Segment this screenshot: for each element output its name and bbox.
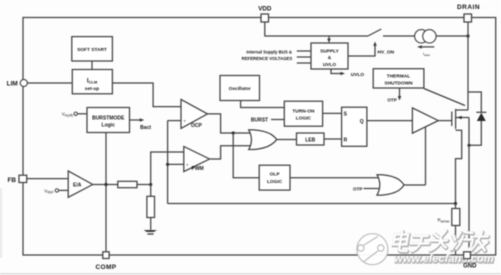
wire OR2 output bbox=[404, 184, 426, 186]
wire VDD rail bbox=[265, 22, 368, 36]
watermark chinese characters bbox=[392, 231, 490, 252]
wire ICLM to OCP inverting input bbox=[112, 83, 181, 107]
or-gate OR2 bbox=[377, 175, 404, 195]
wire turn-on to S bbox=[323, 112, 342, 114]
svg-text:ICLM: ICLM bbox=[87, 79, 98, 85]
resistor Rsense bbox=[455, 204, 457, 209]
svg-text:TURN-ON: TURN-ON bbox=[292, 109, 315, 115]
node OCP branch bbox=[232, 131, 235, 134]
burstmode logic box bbox=[87, 108, 130, 133]
oscillator box bbox=[220, 76, 260, 101]
wire OLP to OR2 bbox=[290, 177, 380, 179]
svg-text:www.elecfans.com: www.elecfans.com bbox=[394, 253, 494, 265]
driver buffer bbox=[412, 108, 438, 133]
wire burstmode to COMP bbox=[105, 133, 107, 253]
current source startup bbox=[415, 30, 428, 43]
turn-on logic box bbox=[284, 101, 322, 126]
node drain junction bbox=[466, 34, 469, 37]
wire body to GND bbox=[468, 118, 470, 253]
svg-text:Bact: Bact bbox=[140, 125, 151, 131]
svg-text:OTP: OTP bbox=[353, 186, 362, 191]
soft start box bbox=[72, 37, 113, 61]
svg-text:VDD: VDD bbox=[258, 6, 272, 13]
svg-text:PWM: PWM bbox=[192, 166, 204, 172]
svg-text:HV_ON: HV_ON bbox=[378, 50, 395, 56]
svg-text:REFERENCE VOLTAGES: REFERENCE VOLTAGES bbox=[242, 56, 293, 61]
wire HV_ON control bbox=[348, 45, 375, 57]
wire rail to drain bbox=[436, 35, 468, 37]
LEB box bbox=[297, 133, 325, 145]
wire OR2 up to driver bbox=[425, 127, 427, 185]
wire sense line horizontal bbox=[168, 203, 456, 205]
wire UVLO out bbox=[331, 69, 342, 74]
svg-text:&: & bbox=[328, 55, 332, 61]
wire PWM out to OR1 bbox=[210, 146, 252, 159]
flip-flop SR latch bbox=[342, 107, 367, 146]
svg-text:+: + bbox=[186, 162, 189, 167]
wire divider to PWM inverting input bbox=[151, 152, 184, 185]
wire thermal diagonal to MOSFET bbox=[424, 89, 465, 106]
svg-text:OLP: OLP bbox=[270, 172, 281, 178]
svg-text:R: R bbox=[344, 138, 348, 144]
svg-text:FB: FB bbox=[7, 177, 16, 184]
wire oscillator to turn-on logic bbox=[241, 101, 285, 108]
svg-text:+: + bbox=[183, 119, 186, 124]
svg-text:UVLO: UVLO bbox=[351, 72, 365, 78]
comparator PWM bbox=[184, 147, 210, 172]
resistor horizontal bbox=[118, 181, 137, 187]
OLP logic box bbox=[259, 165, 290, 190]
wire gate bbox=[438, 120, 452, 122]
svg-text:set-up: set-up bbox=[85, 86, 99, 92]
wire rail to current source bbox=[383, 35, 415, 37]
svg-text:SOFT START: SOFT START bbox=[77, 47, 107, 53]
ICLM set-up box bbox=[72, 70, 112, 94]
svg-text:SHUTDOWN: SHUTDOWN bbox=[384, 80, 413, 86]
svg-text:DRAIN: DRAIN bbox=[457, 4, 480, 11]
wire OTP down arrow bbox=[399, 88, 401, 98]
node sense PWM junction bbox=[166, 163, 169, 166]
wire LIM to ICLM bbox=[27, 82, 72, 84]
node COMP junction bbox=[104, 183, 107, 186]
ground bbox=[144, 230, 157, 232]
svg-text:LEB: LEB bbox=[305, 137, 315, 143]
node sense junction bbox=[454, 202, 457, 205]
resistor vertical bbox=[147, 196, 155, 217]
svg-text:COMP: COMP bbox=[95, 264, 116, 271]
wire EA output bbox=[93, 184, 118, 186]
wire arrow into supply bbox=[328, 36, 330, 40]
svg-text:BURSTMODE: BURSTMODE bbox=[92, 115, 125, 121]
decorative frame lines bbox=[0, 273, 501, 275]
pin GND bbox=[464, 252, 471, 259]
wire Q to driver bbox=[367, 120, 413, 122]
wire diode branch bbox=[468, 92, 481, 112]
switch HV_ON bbox=[368, 29, 381, 36]
node body diode junction bbox=[467, 144, 470, 147]
wire node to OLP logic bbox=[233, 133, 259, 178]
wire bus lines bbox=[297, 50, 311, 52]
wire LEB to R bbox=[324, 138, 342, 140]
wire OR1 to LEB bbox=[277, 139, 297, 141]
wire resistor to divider node bbox=[137, 184, 151, 186]
svg-text:Oscillator: Oscillator bbox=[229, 86, 251, 92]
svg-text:GND: GND bbox=[463, 264, 477, 270]
supply & uvlo box bbox=[311, 43, 348, 69]
svg-text:THERMAL: THERMAL bbox=[387, 73, 411, 79]
svg-text:Internal Supply BUS &: Internal Supply BUS & bbox=[246, 50, 292, 55]
watermark elecfans logo bbox=[357, 234, 388, 265]
diode body bbox=[476, 111, 486, 113]
pin COMP bbox=[103, 252, 109, 259]
wire divider down bbox=[150, 185, 152, 197]
wire sense to OCP plus bbox=[168, 120, 181, 122]
transistor power MOSFET bbox=[451, 112, 453, 127]
svg-text:UVLO: UVLO bbox=[323, 62, 337, 68]
op-amp E/A error amplifier bbox=[68, 171, 93, 197]
wire current sense vertical bbox=[167, 121, 169, 204]
wire Bact output arrow bbox=[130, 119, 142, 121]
wire sense to PWM plus bbox=[168, 163, 184, 165]
svg-text:Istart: Istart bbox=[423, 51, 430, 57]
thermal shutdown box bbox=[373, 69, 424, 88]
wire drain vertical bbox=[467, 22, 469, 110]
svg-text:LOGIC: LOGIC bbox=[296, 116, 312, 122]
wire OCP out to OR1 bbox=[208, 114, 252, 133]
svg-text:Q: Q bbox=[360, 119, 364, 125]
svg-text:LOGIC: LOGIC bbox=[267, 179, 283, 185]
svg-text:BURST: BURST bbox=[251, 117, 268, 123]
svg-text:Logic: Logic bbox=[102, 122, 116, 128]
wire FB to error amp bbox=[27, 178, 68, 180]
svg-text:E/A: E/A bbox=[73, 183, 82, 189]
wire soft start to ICLM bbox=[91, 61, 93, 70]
or-gate OR1 bbox=[249, 130, 277, 150]
comparator OCP bbox=[181, 99, 208, 128]
svg-text:SUPPLY: SUPPLY bbox=[320, 48, 340, 54]
svg-text:OTP: OTP bbox=[387, 97, 396, 102]
node divider junction bbox=[149, 183, 152, 186]
svg-text:OCP: OCP bbox=[191, 123, 203, 129]
wire to ground bbox=[150, 218, 152, 230]
wire Vin(off) to burstmode bbox=[77, 113, 87, 115]
svg-text:LIM: LIM bbox=[7, 81, 18, 88]
